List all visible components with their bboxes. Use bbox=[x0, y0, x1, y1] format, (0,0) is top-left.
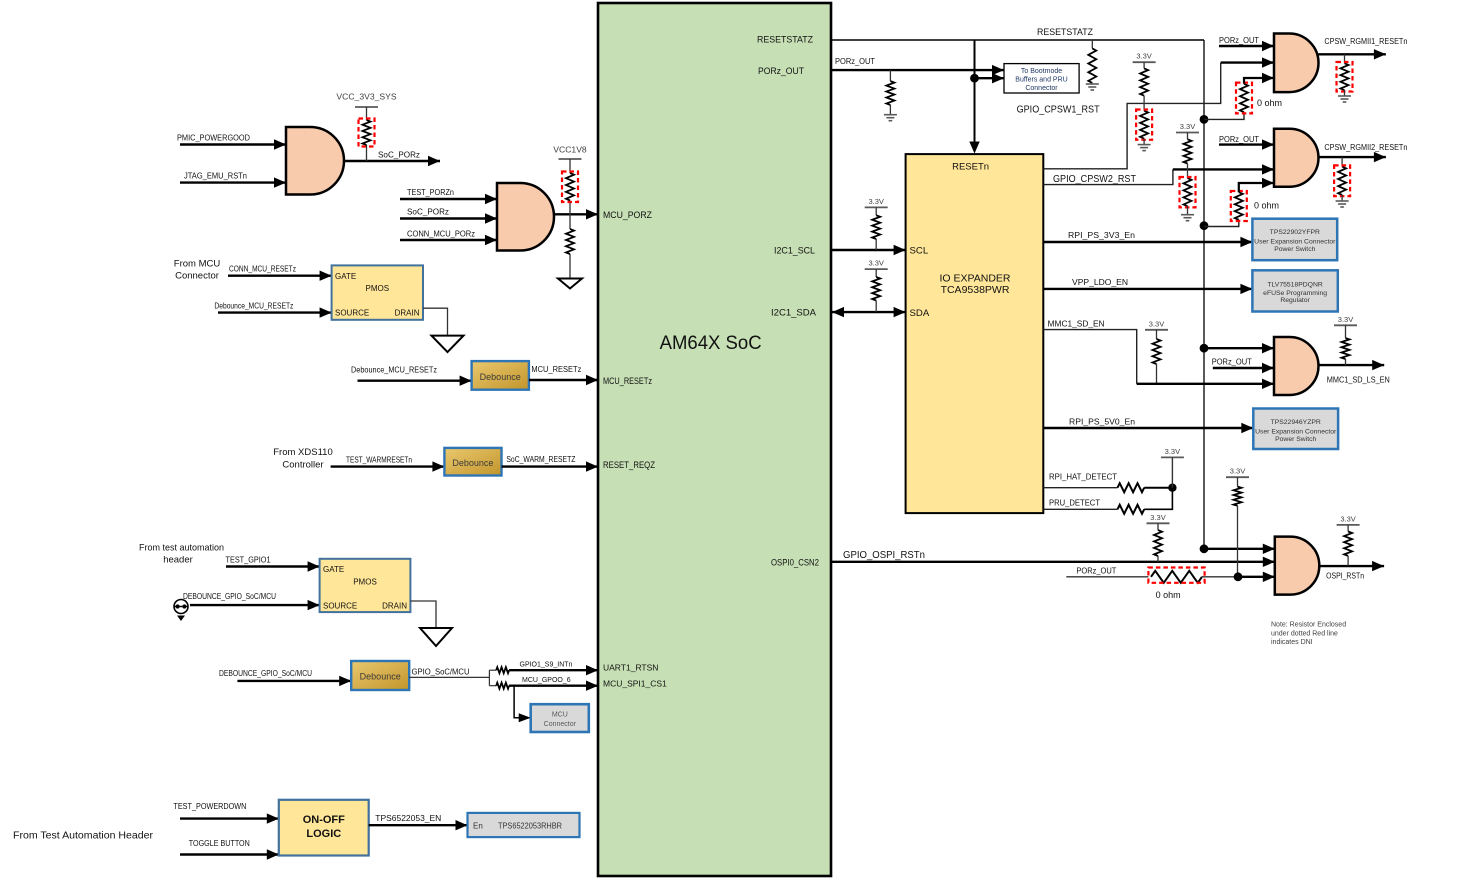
svg-text:TEST_WARMRESETn: TEST_WARMRESETn bbox=[346, 455, 412, 465]
wire MCU_GPOO_6 into SoC MCU_SPI1_CS1 bbox=[509, 685, 598, 687]
svg-text:Buffers and PRU: Buffers and PRU bbox=[1015, 76, 1067, 83]
debounce block D2 bbox=[444, 448, 501, 476]
svg-text:From test automation: From test automation bbox=[139, 543, 224, 554]
svg-text:Power Switch: Power Switch bbox=[1275, 436, 1316, 443]
svg-text:VPP_LDO_EN: VPP_LDO_EN bbox=[1072, 277, 1128, 287]
wire TEST_WARMRESETn into debounce D2 bbox=[331, 465, 445, 467]
wire PORz_OUT from SoC to bootmode box bbox=[832, 69, 1004, 71]
wire TPS6522053_EN bbox=[369, 824, 468, 826]
svg-text:CPSW_RGMII2_RESETn: CPSW_RGMII2_RESETn bbox=[1324, 142, 1407, 152]
svg-text:SOURCE: SOURCE bbox=[335, 309, 369, 318]
svg-text:PORz_OUT: PORz_OUT bbox=[1212, 356, 1253, 366]
resistor R17 DNI on CPSW_RGMII2_RESETn bbox=[1341, 157, 1343, 167]
ground under R15 bbox=[1338, 96, 1351, 102]
resistor R20 series RPI_HAT_DETECT bbox=[1118, 483, 1145, 492]
svg-text:From XDS110: From XDS110 bbox=[273, 447, 332, 458]
resistor R11 DNI CPSW1 pull-down bbox=[1140, 111, 1148, 139]
svg-text:0 ohm: 0 ohm bbox=[1156, 590, 1181, 600]
wire GPIO_CPSW1_RST into gate U4 bbox=[1221, 61, 1274, 63]
resistor R2 DNI pull-up on MCU_PORZ bbox=[566, 173, 574, 201]
transistor Q2 PMOS block bbox=[320, 559, 411, 612]
svg-text:TEST_GPIO1: TEST_GPIO1 bbox=[226, 555, 271, 565]
resistor R12 CPSW2 pull-up bbox=[1187, 133, 1189, 140]
resistor R13 DNI CPSW2 pull-down bbox=[1184, 178, 1192, 206]
wire JTAG_EMU_RSTn into U1 bbox=[180, 181, 286, 183]
wire Q1 drain to ground bbox=[423, 308, 448, 335]
and-gate U5 bbox=[1274, 129, 1318, 187]
svg-text:OSPI_RSTn: OSPI_RSTn bbox=[1326, 571, 1364, 581]
wire MCU_PORZ output of U2 into SoC bbox=[554, 213, 598, 215]
svg-text:Regulator: Regulator bbox=[1280, 297, 1310, 304]
svg-text:Power Switch: Power Switch bbox=[1274, 246, 1315, 253]
svg-text:TPS22946YZPR: TPS22946YZPR bbox=[1271, 419, 1321, 426]
svg-text:En: En bbox=[473, 821, 483, 830]
svg-text:User Expansion Connector: User Expansion Connector bbox=[1255, 429, 1337, 436]
wire MCU_RESETz into SoC bbox=[529, 379, 598, 381]
block TPS6522053RHBR PMIC bbox=[468, 813, 580, 837]
and-gate U6 bbox=[1274, 337, 1319, 395]
wire PORz_OUT into gate U5 bbox=[1219, 143, 1274, 145]
svg-text:Debounce: Debounce bbox=[452, 458, 493, 468]
block To Bootmode Buffers and PRU Connector bbox=[1004, 64, 1079, 93]
svg-text:MMC1_SD_LS_EN: MMC1_SD_LS_EN bbox=[1327, 375, 1390, 385]
power rail 3.3V SDA pull-up bbox=[865, 268, 888, 270]
wire GPIO_OSPI_RSTn from SoC OSPI0_CSN2 bbox=[832, 561, 1275, 563]
svg-text:SDA: SDA bbox=[910, 308, 930, 319]
resistor R21 series PRU_DETECT bbox=[1118, 505, 1145, 514]
svg-text:SOURCE: SOURCE bbox=[323, 602, 357, 611]
ground Q2 drain bbox=[420, 628, 452, 646]
wire GPIO1_S9_INTn into SoC UART1_RTSN bbox=[509, 669, 598, 671]
node junction trunk to R14 bbox=[1200, 115, 1209, 124]
power rail 3.3V OSPI pull-up bbox=[1147, 522, 1170, 524]
svg-text:RPI_PS_5V0_En: RPI_PS_5V0_En bbox=[1069, 416, 1135, 426]
wire CPSW_RGMII1_RESETn output bbox=[1319, 53, 1386, 55]
svg-text:3.3V: 3.3V bbox=[1149, 319, 1164, 328]
resistor R3 pull-down on MCU_PORZ bbox=[566, 229, 574, 254]
wire Debounce_MCU_RESETz into debounce D1 bbox=[358, 380, 472, 382]
wire CONN_MCU_PORz into U2 bbox=[400, 239, 497, 241]
power rail 3.3V CPSW1 pull-up bbox=[1133, 61, 1156, 63]
svg-text:PMOS: PMOS bbox=[353, 578, 377, 587]
svg-text:VCC_3V3_SYS: VCC_3V3_SYS bbox=[336, 92, 396, 102]
svg-text:RESETn: RESETn bbox=[952, 162, 989, 173]
debounce block D1 bbox=[472, 361, 529, 390]
svg-text:DRAIN: DRAIN bbox=[395, 309, 420, 318]
resistor R22 OSPI pull-up bbox=[1157, 523, 1159, 530]
svg-text:RESETSTATZ: RESETSTATZ bbox=[757, 35, 813, 46]
svg-text:RESETSTATZ: RESETSTATZ bbox=[1037, 27, 1093, 38]
wire RESETSTATZ from SoC to trunk bbox=[832, 39, 1204, 41]
power rail VCC1V8 bbox=[559, 158, 582, 160]
svg-text:RPI_PS_3V3_En: RPI_PS_3V3_En bbox=[1068, 230, 1135, 240]
ground under R13 bbox=[1181, 215, 1194, 221]
svg-text:PORz_OUT: PORz_OUT bbox=[758, 66, 804, 77]
wire VPP_LDO_EN bbox=[1043, 288, 1252, 290]
resistor R10 CPSW1 pull-up bbox=[1143, 62, 1145, 68]
wire SoC_PORz into U2 bbox=[400, 217, 497, 219]
svg-text:PORz_OUT: PORz_OUT bbox=[1219, 134, 1260, 144]
svg-text:GATE: GATE bbox=[323, 565, 344, 574]
wire GPIO_CPSW2_RST from IO expander bbox=[1043, 169, 1173, 184]
svg-text:3.3V: 3.3V bbox=[1180, 122, 1195, 131]
wire RPI_PS_5V0_En bbox=[1043, 427, 1253, 429]
resistor R8 SCL pull-up bbox=[875, 207, 877, 215]
svg-text:TPS6522053RHBR: TPS6522053RHBR bbox=[498, 821, 562, 830]
svg-text:SoC_PORz: SoC_PORz bbox=[378, 150, 420, 160]
svg-text:PMIC_POWERGOOD: PMIC_POWERGOOD bbox=[177, 133, 250, 143]
svg-text:PORz_OUT: PORz_OUT bbox=[1219, 35, 1260, 45]
svg-text:PRU_DETECT: PRU_DETECT bbox=[1049, 498, 1101, 508]
wire OSPI_RSTn output bbox=[1319, 565, 1384, 567]
power rail 3.3V on MMC1_SD_LS_EN bbox=[1334, 324, 1357, 326]
ground under R17 bbox=[1336, 201, 1349, 207]
svg-text:DRAIN: DRAIN bbox=[382, 602, 407, 611]
block MCU Connector bbox=[531, 704, 589, 732]
svg-text:To Bootmode: To Bootmode bbox=[1021, 68, 1062, 75]
ground below R3 bbox=[558, 279, 582, 289]
wire TOGGLE BUTTON into on-off logic bbox=[180, 853, 279, 855]
node junction trunk to R16 bbox=[1200, 221, 1209, 230]
svg-text:MCU_GPOO_6: MCU_GPOO_6 bbox=[522, 677, 571, 684]
svg-text:GPIO_SoC/MCU: GPIO_SoC/MCU bbox=[412, 666, 470, 676]
ground Q1 drain bbox=[432, 336, 464, 353]
svg-text:under dotted Red line: under dotted Red line bbox=[1271, 631, 1338, 638]
wire GPIO_SoC/MCU from D3 bbox=[409, 676, 489, 678]
wire Q2 drain to ground bbox=[410, 601, 436, 628]
svg-text:DEBOUNCE_GPIO_SoC/MCU: DEBOUNCE_GPIO_SoC/MCU bbox=[219, 668, 312, 678]
svg-text:Connector: Connector bbox=[1025, 85, 1058, 92]
wire VCC_3V3_SYS pull-up to SoC_PORz bbox=[366, 107, 368, 120]
resistor R6 PORz_OUT pull-down bbox=[889, 70, 891, 81]
svg-text:TLV75518PDQNR: TLV75518PDQNR bbox=[1267, 282, 1322, 289]
wire junction into gate U7 bbox=[1238, 576, 1275, 578]
svg-text:MMC1_SD_EN: MMC1_SD_EN bbox=[1048, 318, 1105, 328]
power rail 3.3V CPSW2 pull-up bbox=[1176, 132, 1199, 134]
wire MMC1_SD_EN from IO expander bbox=[1043, 330, 1136, 384]
wire branch down to IO expander RESETn bbox=[974, 40, 976, 150]
svg-text:RPI_HAT_DETECT: RPI_HAT_DETECT bbox=[1049, 471, 1118, 481]
svg-text:TCA9538PWR: TCA9538PWR bbox=[941, 284, 1010, 296]
svg-text:Debounce: Debounce bbox=[480, 372, 521, 382]
resistor R18 MMC1_SD pull-up bbox=[1156, 330, 1158, 339]
wire PORz_OUT to 0 ohm R23 bbox=[1066, 576, 1148, 578]
svg-text:SoC_WARM_RESETZ: SoC_WARM_RESETZ bbox=[506, 454, 575, 464]
svg-text:TOGGLE BUTTON: TOGGLE BUTTON bbox=[189, 838, 250, 848]
wire R21 to 3.3V node bbox=[1144, 488, 1172, 510]
svg-text:Connector: Connector bbox=[175, 271, 219, 282]
svg-text:3.3V: 3.3V bbox=[1165, 447, 1180, 456]
wire R20 to 3.3V node bbox=[1144, 487, 1172, 489]
ground under R7 bbox=[1086, 84, 1099, 90]
svg-text:SoC_PORz: SoC_PORz bbox=[407, 207, 449, 217]
svg-text:ON-OFF: ON-OFF bbox=[303, 814, 345, 826]
svg-text:MCU_RESETz: MCU_RESETz bbox=[531, 364, 581, 374]
svg-text:3.3V: 3.3V bbox=[1150, 513, 1165, 522]
wire TEST_POWERDOWN into on-off logic bbox=[180, 817, 279, 819]
wire PORz_OUT into gate U6 bbox=[1213, 367, 1274, 369]
svg-text:eFUSe Programming: eFUSe Programming bbox=[1263, 290, 1327, 297]
and-gate U4 bbox=[1274, 34, 1319, 93]
svg-text:3.3V: 3.3V bbox=[868, 259, 883, 268]
wire RPI_PS_3V3_En bbox=[1043, 241, 1252, 243]
svg-text:GPIO_OSPI_RSTn: GPIO_OSPI_RSTn bbox=[843, 550, 925, 561]
wire trunk to 0 ohm resistor R16 bbox=[1204, 220, 1239, 227]
wire R14 into gate U4 bbox=[1244, 78, 1274, 84]
svg-text:Connector: Connector bbox=[544, 721, 577, 728]
debounce block D3 bbox=[351, 661, 409, 690]
svg-text:Debounce_MCU_RESETz: Debounce_MCU_RESETz bbox=[214, 301, 293, 311]
svg-text:TEST_POWERDOWN: TEST_POWERDOWN bbox=[173, 801, 246, 811]
wire MMC1_SD_EN into gate U6 bbox=[1137, 383, 1274, 385]
wire RPI_HAT_DETECT bbox=[1043, 487, 1117, 489]
svg-text:MCU_RESETz: MCU_RESETz bbox=[603, 376, 652, 387]
op-amp U3 IO EXPANDER TCA9538PWR block bbox=[906, 154, 1044, 513]
svg-text:3.3V: 3.3V bbox=[1230, 467, 1245, 476]
svg-text:LOGIC: LOGIC bbox=[306, 828, 341, 840]
wire CPSW_RGMII2_RESETn output bbox=[1319, 156, 1386, 158]
block TPS22902YFPR power switch bbox=[1252, 219, 1337, 261]
svg-text:IO EXPANDER: IO EXPANDER bbox=[940, 273, 1011, 285]
wire TEST_GPIO1 to Q2 gate bbox=[226, 565, 320, 567]
svg-text:PORz_OUT: PORz_OUT bbox=[1076, 565, 1117, 575]
wire DEBOUNCE_GPIO_SoC/MCU to Q2 source bbox=[190, 604, 320, 606]
node junction trunk to gate U6 input1 bbox=[1200, 344, 1209, 353]
node junction detect pull-up bbox=[1168, 484, 1176, 492]
node split GPIO_SoC/MCU bbox=[488, 670, 490, 686]
node junction trunk bottom bbox=[1200, 544, 1209, 553]
svg-text:indicates DNI: indicates DNI bbox=[1271, 639, 1313, 646]
resistor R16 0 ohm DNI bbox=[1235, 192, 1243, 220]
svg-text:CONN_MCU_RESETz: CONN_MCU_RESETz bbox=[229, 264, 296, 274]
power rail 3.3V SCL pull-up bbox=[865, 206, 888, 208]
svg-text:3.3V: 3.3V bbox=[868, 197, 883, 206]
svg-text:MCU_PORZ: MCU_PORZ bbox=[603, 210, 652, 221]
block TLV75518PDQNR regulator bbox=[1252, 270, 1337, 311]
svg-text:TPS6522053_EN: TPS6522053_EN bbox=[375, 813, 441, 823]
svg-text:GPIO_CPSW2_RST: GPIO_CPSW2_RST bbox=[1053, 174, 1136, 185]
wire I2C1_SCL to IO expander bbox=[832, 249, 906, 251]
svg-text:3.3V: 3.3V bbox=[1136, 52, 1151, 61]
svg-text:TPS22902YFPR: TPS22902YFPR bbox=[1270, 229, 1320, 236]
wire trunk junction into gate U6 bbox=[1204, 347, 1274, 349]
node junction OSPI input3 bbox=[1234, 572, 1243, 581]
wire R16 into gate U5 bbox=[1239, 183, 1274, 192]
power rail 3.3V PORz DNI pull-up bbox=[1226, 476, 1249, 478]
svg-text:GATE: GATE bbox=[335, 272, 356, 281]
wire trunk into gate U7 input1 bbox=[1204, 548, 1275, 550]
wire VCC1V8 pull-up chain bbox=[569, 159, 571, 173]
wire branch to MCU Connector bbox=[514, 686, 531, 718]
ground under R6 bbox=[884, 115, 897, 121]
svg-text:Debounce: Debounce bbox=[360, 671, 401, 681]
svg-text:DEBOUNCE_GPIO_SoC/MCU: DEBOUNCE_GPIO_SoC/MCU bbox=[183, 591, 276, 601]
wire PMIC_POWERGOOD into U1 bbox=[180, 143, 286, 145]
svg-text:header: header bbox=[163, 555, 193, 566]
power rail 3.3V on OSPI_RSTn bbox=[1337, 524, 1360, 526]
svg-text:MCU_SPI1_CS1: MCU_SPI1_CS1 bbox=[603, 678, 667, 688]
wire SoC_WARM_RESETZ into SoC RESET_REQZ bbox=[502, 465, 599, 467]
svg-text:User Expansion Connector: User Expansion Connector bbox=[1254, 239, 1336, 246]
svg-text:MCU: MCU bbox=[552, 711, 568, 718]
wire trunk vertical RESETSTATZ net bbox=[1203, 40, 1205, 549]
svg-text:Note: Resistor Enclosed: Note: Resistor Enclosed bbox=[1271, 622, 1346, 629]
ground under R11 bbox=[1138, 145, 1151, 151]
resistor R4 series on GPIO1_S9_INTn bbox=[489, 669, 496, 671]
wire trunk to 0 ohm resistor R14 bbox=[1204, 112, 1244, 119]
wire SoC_PORz output of U1 bbox=[344, 160, 440, 162]
resistor R1 DNI pull-up on SoC_PORz bbox=[363, 120, 371, 145]
resistor R15 DNI on CPSW_RGMII1_RESETn bbox=[1344, 54, 1346, 63]
svg-text:GPIO_CPSW1_RST: GPIO_CPSW1_RST bbox=[1017, 105, 1100, 116]
svg-text:Controller: Controller bbox=[282, 460, 323, 471]
power rail 3.3V MMC1_SD pull-up bbox=[1145, 329, 1168, 331]
svg-text:I2C1_SCL: I2C1_SCL bbox=[774, 246, 816, 257]
wire CONN_MCU_RESETz to Q1 gate bbox=[228, 275, 332, 277]
wire GPIO_CPSW2_RST into gate U5 bbox=[1173, 168, 1274, 170]
wire GPIO_CPSW1_RST from IO expander bbox=[1043, 63, 1220, 169]
wire DEBOUNCE_GPIO_SoC/MCU into debounce D3 bbox=[237, 680, 351, 682]
wire MMC1_SD_LS_EN output bbox=[1319, 364, 1385, 366]
wire I2C1_SDA to IO expander (bidirectional) bbox=[832, 311, 906, 313]
transistor Q1 PMOS block bbox=[332, 265, 423, 319]
svg-text:3.3V: 3.3V bbox=[1338, 315, 1353, 324]
wire TEST_PORZn into U2 bbox=[400, 198, 497, 200]
svg-text:JTAG_EMU_RSTn: JTAG_EMU_RSTn bbox=[184, 171, 247, 181]
svg-text:AM64X SoC: AM64X SoC bbox=[660, 333, 762, 354]
svg-text:RESET_REQZ: RESET_REQZ bbox=[603, 460, 655, 471]
power rail 3.3V detect pull-up bbox=[1161, 456, 1184, 458]
resistor R23 0 ohm DNI horizontal bbox=[1151, 571, 1202, 583]
svg-text:PORz_OUT: PORz_OUT bbox=[835, 56, 876, 66]
svg-text:0 ohm: 0 ohm bbox=[1257, 98, 1282, 108]
block TPS22946YZPR power switch bbox=[1253, 409, 1338, 450]
test point symbol on DEBOUNCE_GPIO_SoC/MCU bbox=[174, 600, 188, 614]
svg-text:0 ohm: 0 ohm bbox=[1254, 201, 1279, 211]
wire R23 to junction bbox=[1202, 576, 1238, 578]
svg-text:Debounce_MCU_RESETz: Debounce_MCU_RESETz bbox=[351, 364, 437, 374]
and-gate U7 bbox=[1275, 537, 1320, 595]
resistor R5 series on MCU_GPOO_6 bbox=[489, 685, 496, 687]
svg-text:From MCU: From MCU bbox=[174, 259, 221, 270]
resistor R9 SDA pull-up bbox=[875, 269, 877, 277]
svg-text:VCC1V8: VCC1V8 bbox=[553, 145, 587, 155]
svg-text:PMOS: PMOS bbox=[366, 284, 390, 293]
resistor R19 MMC1_SD_LS_EN pull-up bbox=[1345, 325, 1347, 338]
resistor R14 0 ohm DNI bbox=[1240, 84, 1248, 112]
svg-text:SCL: SCL bbox=[910, 246, 929, 257]
wire PORz_OUT into gate U4 bbox=[1219, 45, 1274, 47]
svg-text:TEST_PORZn: TEST_PORZn bbox=[407, 187, 454, 197]
svg-text:OSPI0_CSN2: OSPI0_CSN2 bbox=[771, 557, 819, 568]
resistor R25 OSPI_RSTn pull-up bbox=[1347, 525, 1349, 532]
and-gate U1 bbox=[286, 127, 344, 195]
svg-text:GPIO1_S9_INTn: GPIO1_S9_INTn bbox=[520, 662, 573, 669]
block ON-OFF LOGIC bbox=[279, 800, 369, 856]
svg-text:From Test Automation Header: From Test Automation Header bbox=[13, 831, 154, 842]
power rail VCC_3V3_SYS bbox=[355, 106, 378, 108]
svg-text:3.3V: 3.3V bbox=[1340, 514, 1355, 523]
svg-text:I2C1_SDA: I2C1_SDA bbox=[771, 308, 817, 319]
svg-text:UART1_RTSN: UART1_RTSN bbox=[603, 662, 658, 672]
resistor R24 pull-up to OSPI input3 bbox=[1237, 477, 1239, 486]
wire Debounce_MCU_RESETz to Q1 source bbox=[218, 311, 332, 313]
wire stub junction to bootmode box bbox=[975, 77, 1005, 79]
node junction on PORz branch bbox=[970, 74, 979, 83]
resistor R7 RESETSTATZ pull-down bbox=[1091, 40, 1093, 48]
svg-text:CPSW_RGMII1_RESETn: CPSW_RGMII1_RESETn bbox=[1324, 36, 1407, 46]
AM64X SoC block bbox=[598, 3, 831, 876]
wire PRU_DETECT bbox=[1043, 508, 1117, 510]
svg-text:CONN_MCU_PORz: CONN_MCU_PORz bbox=[407, 229, 475, 239]
and-gate U2 bbox=[497, 183, 554, 251]
